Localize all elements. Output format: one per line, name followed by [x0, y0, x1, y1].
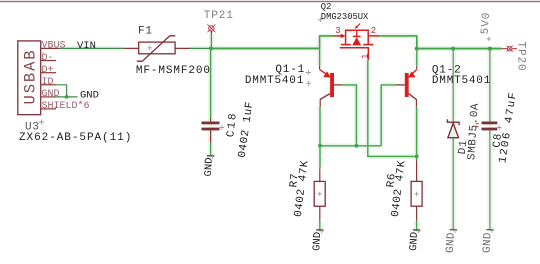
svg-text:DMMT5401: DMMT5401	[432, 75, 491, 87]
wire C8 to ground	[489, 142, 491, 229]
wire C18 to ground	[210, 143, 212, 156]
wire rail to D1	[452, 49, 454, 122]
junction line B at R6	[415, 155, 419, 159]
resistor R6	[411, 161, 422, 221]
wire D1 to ground	[452, 138, 454, 230]
svg-text:GND: GND	[311, 232, 324, 252]
rail 5V0	[417, 48, 502, 50]
mosfet Q2 pin 2	[368, 26, 380, 36]
origin cross Q1-1 value	[306, 81, 311, 86]
ground below R6	[408, 229, 421, 252]
ground below D1	[445, 229, 458, 254]
wire R7 to ground	[319, 221, 321, 230]
origin cross Q2	[318, 17, 323, 22]
mosfet Q2 gate	[340, 48, 371, 61]
wire node to Q1-1 emitter	[319, 48, 321, 65]
wire R6 to ground	[416, 221, 418, 230]
pin SHIELD*6	[41, 100, 90, 112]
capacitor C8	[482, 122, 498, 143]
transistor Q1-2	[396, 66, 417, 107]
fuse F1 left pin	[123, 47, 139, 49]
svg-text:GND: GND	[42, 89, 60, 100]
svg-text:TP21: TP21	[204, 10, 234, 22]
ground below C8	[482, 229, 495, 254]
svg-text:SHIELD*6: SHIELD*6	[42, 100, 90, 112]
pin VBUS	[41, 41, 66, 52]
svg-text:2: 2	[371, 26, 376, 36]
wire line A collector/base cross-couple	[320, 145, 381, 147]
diode D1 TVS	[447, 119, 478, 138]
mosfet Q2 body	[341, 30, 373, 44]
ground below R7	[311, 229, 324, 252]
junction node A	[209, 46, 213, 50]
wire F1 to node A	[190, 47, 211, 49]
svg-text:D+: D+	[42, 65, 54, 76]
svg-text:GND: GND	[408, 232, 421, 252]
junction C8 tap	[488, 47, 492, 51]
origin cross C8	[497, 125, 501, 129]
svg-text:1: 1	[361, 54, 371, 59]
junction ID/GND	[65, 95, 69, 99]
wire Q1-2 base left then down	[381, 85, 396, 146]
wire riser to Q2 pin 3	[320, 36, 334, 49]
wire rail to C8	[489, 49, 491, 122]
svg-text:D-: D-	[42, 53, 54, 64]
pin ID	[41, 77, 56, 88]
test point TP20 symbol	[501, 46, 517, 52]
capacitor C18	[202, 119, 220, 143]
svg-text:VIN: VIN	[77, 40, 96, 52]
svg-text:GND: GND	[445, 232, 458, 253]
wire to R6	[416, 156, 418, 160]
wire halo underlay	[59, 35, 501, 230]
origin cross C18	[220, 125, 224, 129]
wire to R7	[319, 146, 321, 169]
wire TP21 to node A	[210, 35, 212, 49]
svg-text:GND: GND	[482, 232, 495, 253]
svg-text:DMMT5401: DMMT5401	[245, 75, 304, 87]
wire GND stub	[56, 96, 78, 98]
net label 5V0	[480, 11, 494, 41]
wire node B to Q1-2 emitter	[416, 49, 418, 66]
wire line B gate to R6	[368, 60, 417, 156]
junction D1 tap	[451, 47, 455, 51]
svg-text:ZX62-AB-5PA(11): ZX62-AB-5PA(11)	[19, 132, 132, 144]
wire Q1-1 base right then down	[343, 85, 357, 146]
pin D+	[41, 65, 56, 76]
pin D-	[41, 53, 56, 64]
wire Q1-2 collector down	[416, 107, 418, 156]
fuse F1 body	[137, 36, 176, 61]
designator U3	[25, 120, 44, 134]
wire Q2 pin2 to node B	[380, 36, 417, 49]
fuse F1 right pin	[175, 47, 190, 49]
svg-text:USBAB: USBAB	[22, 48, 40, 104]
svg-text:GND: GND	[203, 157, 216, 177]
svg-text:Q2: Q2	[321, 2, 332, 12]
junction line A at Q1-1 base	[355, 144, 359, 148]
svg-text:3: 3	[335, 26, 340, 36]
wire VIN from VBUS to F1	[59, 47, 123, 49]
pin GND	[41, 89, 60, 100]
ground below C18	[203, 154, 216, 176]
svg-text:DMG2305UX: DMG2305UX	[321, 12, 369, 22]
svg-text:MF-MSMF200: MF-MSMF200	[136, 65, 211, 77]
transistor Q1-1	[320, 66, 343, 107]
wire ID to GND net	[56, 85, 67, 97]
resistor R7	[314, 168, 325, 220]
svg-text:5V0: 5V0	[480, 11, 494, 34]
mosfet Q2 body diode	[353, 30, 361, 44]
svg-text:F1: F1	[138, 26, 153, 38]
svg-text:TP20: TP20	[514, 42, 526, 72]
junction line A at R7	[318, 144, 322, 148]
mosfet Q2 bulk arrow	[355, 24, 360, 29]
frame top border	[0, 1, 540, 2]
wire node A to Q2 pin3 riser	[211, 47, 320, 49]
mosfet Q2 pin 3	[334, 26, 346, 38]
svg-text:GND: GND	[80, 89, 99, 101]
junction node B	[415, 47, 419, 51]
svg-text:ID: ID	[42, 77, 54, 88]
origin cross Q1-1	[306, 70, 311, 75]
wire node A down to C18	[210, 48, 212, 118]
svg-text:VBUS: VBUS	[42, 41, 66, 52]
wire Q1-1 collector down	[319, 107, 321, 146]
test point TP21 symbol	[207, 24, 215, 34]
connector U3 body	[18, 41, 41, 115]
